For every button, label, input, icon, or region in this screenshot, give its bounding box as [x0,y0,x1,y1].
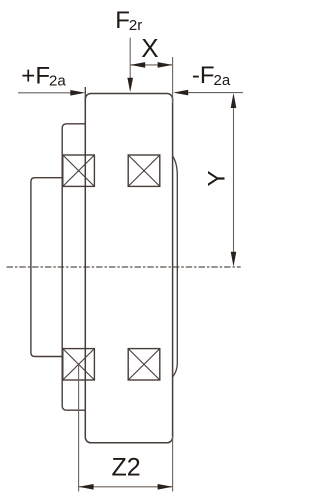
centerline (shaft axis) [7,266,241,268]
svg-text:Z2: Z2 [112,454,141,482]
bearing top-left square [63,155,95,186]
svg-text:+F2a: +F2a [21,62,66,89]
housing body outline [85,94,172,443]
-F2a force arrow and Y top reference line [173,90,243,96]
X dimension [130,57,172,103]
bearing top-right square [128,155,160,186]
svg-text:X: X [141,33,158,63]
spigot step [62,124,85,410]
svg-text:Y: Y [203,170,230,186]
bearing bottom-right square [128,349,160,380]
svg-text:-F2a: -F2a [192,62,231,89]
Z2 dimension [79,365,173,492]
bearing bottom-left square [63,349,95,380]
housing body left edge overshoot [84,87,86,103]
Y dimension [231,93,237,267]
F2r force arrow [127,38,133,93]
flange [31,178,62,357]
svg-text:F2r: F2r [115,7,142,34]
+F2a force arrow [18,90,85,96]
housing outer surface contour [173,156,178,377]
